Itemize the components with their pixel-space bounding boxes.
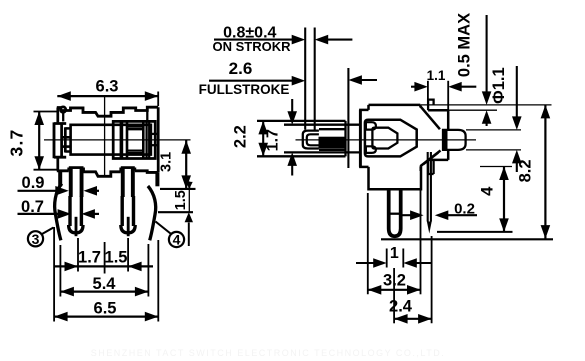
front view left leg inner rod [75,217,78,236]
svg-text:5.4: 5.4 [93,275,117,293]
lower contact tab [366,146,376,153]
plunger center rod [319,137,347,149]
svg-text:3: 3 [32,231,40,247]
plunger tip cap inner [307,134,319,145]
front view body right edge [157,107,160,172]
svg-text:4: 4 [479,186,497,196]
svg-text:Φ1.1: Φ1.1 [490,67,508,103]
front view body bottom profile [57,168,158,177]
svg-text:2.4: 2.4 [389,298,413,316]
upper contact tab [366,122,376,129]
full stroke extension line [347,68,349,168]
front view right side clip arm [148,186,156,240]
svg-text:3.1: 3.1 [158,152,174,172]
svg-text:1.5: 1.5 [105,248,128,266]
svg-text:1.7: 1.7 [264,129,281,151]
side view boss top edge [369,104,421,107]
shaft bottom extension [466,149,521,151]
reference line for dim 4 [437,231,513,233]
front view left leg shoulder bar [69,166,84,169]
svg-text:ON STROKR: ON STROKR [213,39,292,54]
side view body left edge [359,110,362,167]
side view horizontal centerline [296,139,477,141]
plunger inner top line [284,124,360,126]
svg-text:1: 1 [390,245,399,262]
bent pin edge-on [427,152,429,222]
base block [369,166,422,189]
stroke extension line at plunger tip [304,28,306,130]
dimension 0.5 max arrows [486,15,488,93]
shaft dome [443,130,466,150]
bottom right chamfer inner [423,153,438,165]
front view inner cavity box [71,125,151,155]
seating plane line [381,238,553,240]
side view body top edge [359,109,368,112]
front view left leg [69,168,73,198]
boss top extension line [420,104,551,106]
plunger mid section bottom [319,149,346,151]
svg-text:0.5 MAX: 0.5 MAX [456,13,474,77]
leader circle 4 terminal mark [169,232,184,247]
svg-text:SHENZHEN TACT SWITCH ELECTRONI: SHENZHEN TACT SWITCH ELECTRONIC TECHNOLO… [91,348,446,358]
bottom right chamfer [420,151,440,167]
svg-text:2.6: 2.6 [229,59,253,78]
front view horizontal centerline [44,139,191,141]
svg-text:8.2: 8.2 [517,159,535,182]
inner D bracket outer [365,120,417,157]
rear bottom tab [428,160,434,174]
front view right leg [121,168,125,198]
shaft top extension [466,129,521,131]
body top extension line [448,109,497,111]
plunger mid section top [319,128,346,130]
plunger outer bottom line [257,155,346,157]
svg-text:2.2: 2.2 [231,125,249,148]
plunger tip cap [303,131,319,149]
front view body top profile [57,107,158,116]
front view left side ear connector [54,122,66,158]
front view left clip root [58,171,62,187]
svg-text:1.1: 1.1 [427,68,446,83]
front view step connector right [146,111,148,122]
rear bottom edge [447,150,450,160]
front view right contact bracket [113,121,155,158]
front view vertical centerline [104,97,106,177]
shaft neck solid [442,129,448,150]
front view right clip root [155,172,159,186]
svg-text:3.7: 3.7 [6,129,26,157]
front view step connector left [62,111,64,122]
svg-text:1.5: 1.5 [173,190,189,210]
front view left side clip arm [55,184,62,241]
svg-text:1.7: 1.7 [78,248,101,266]
svg-text:0.9: 0.9 [22,174,45,192]
plunger outer top line [257,120,346,122]
side view leg [389,189,401,236]
front view top-left knob [60,107,65,112]
svg-text:6.5: 6.5 [94,300,117,318]
plunger outer step [344,121,346,156]
top right chamfer [420,106,440,129]
stroke extension line on-stroke position [314,28,316,130]
rear top edge [428,109,448,112]
rear top tab [428,100,434,111]
leader circle 3 terminal mark [28,231,43,246]
front view right leg shoulder bar [121,166,135,169]
svg-text:4: 4 [173,232,181,248]
front view body left edge [56,108,59,123]
side view body bottom edge [359,166,368,169]
plunger inner bottom line [284,151,360,153]
front view right leg inner rod [127,217,130,236]
svg-text:6.3: 6.3 [96,78,119,96]
svg-text:FULLSTROKE: FULLSTROKE [199,82,290,97]
inner D bracket inner [372,128,397,149]
